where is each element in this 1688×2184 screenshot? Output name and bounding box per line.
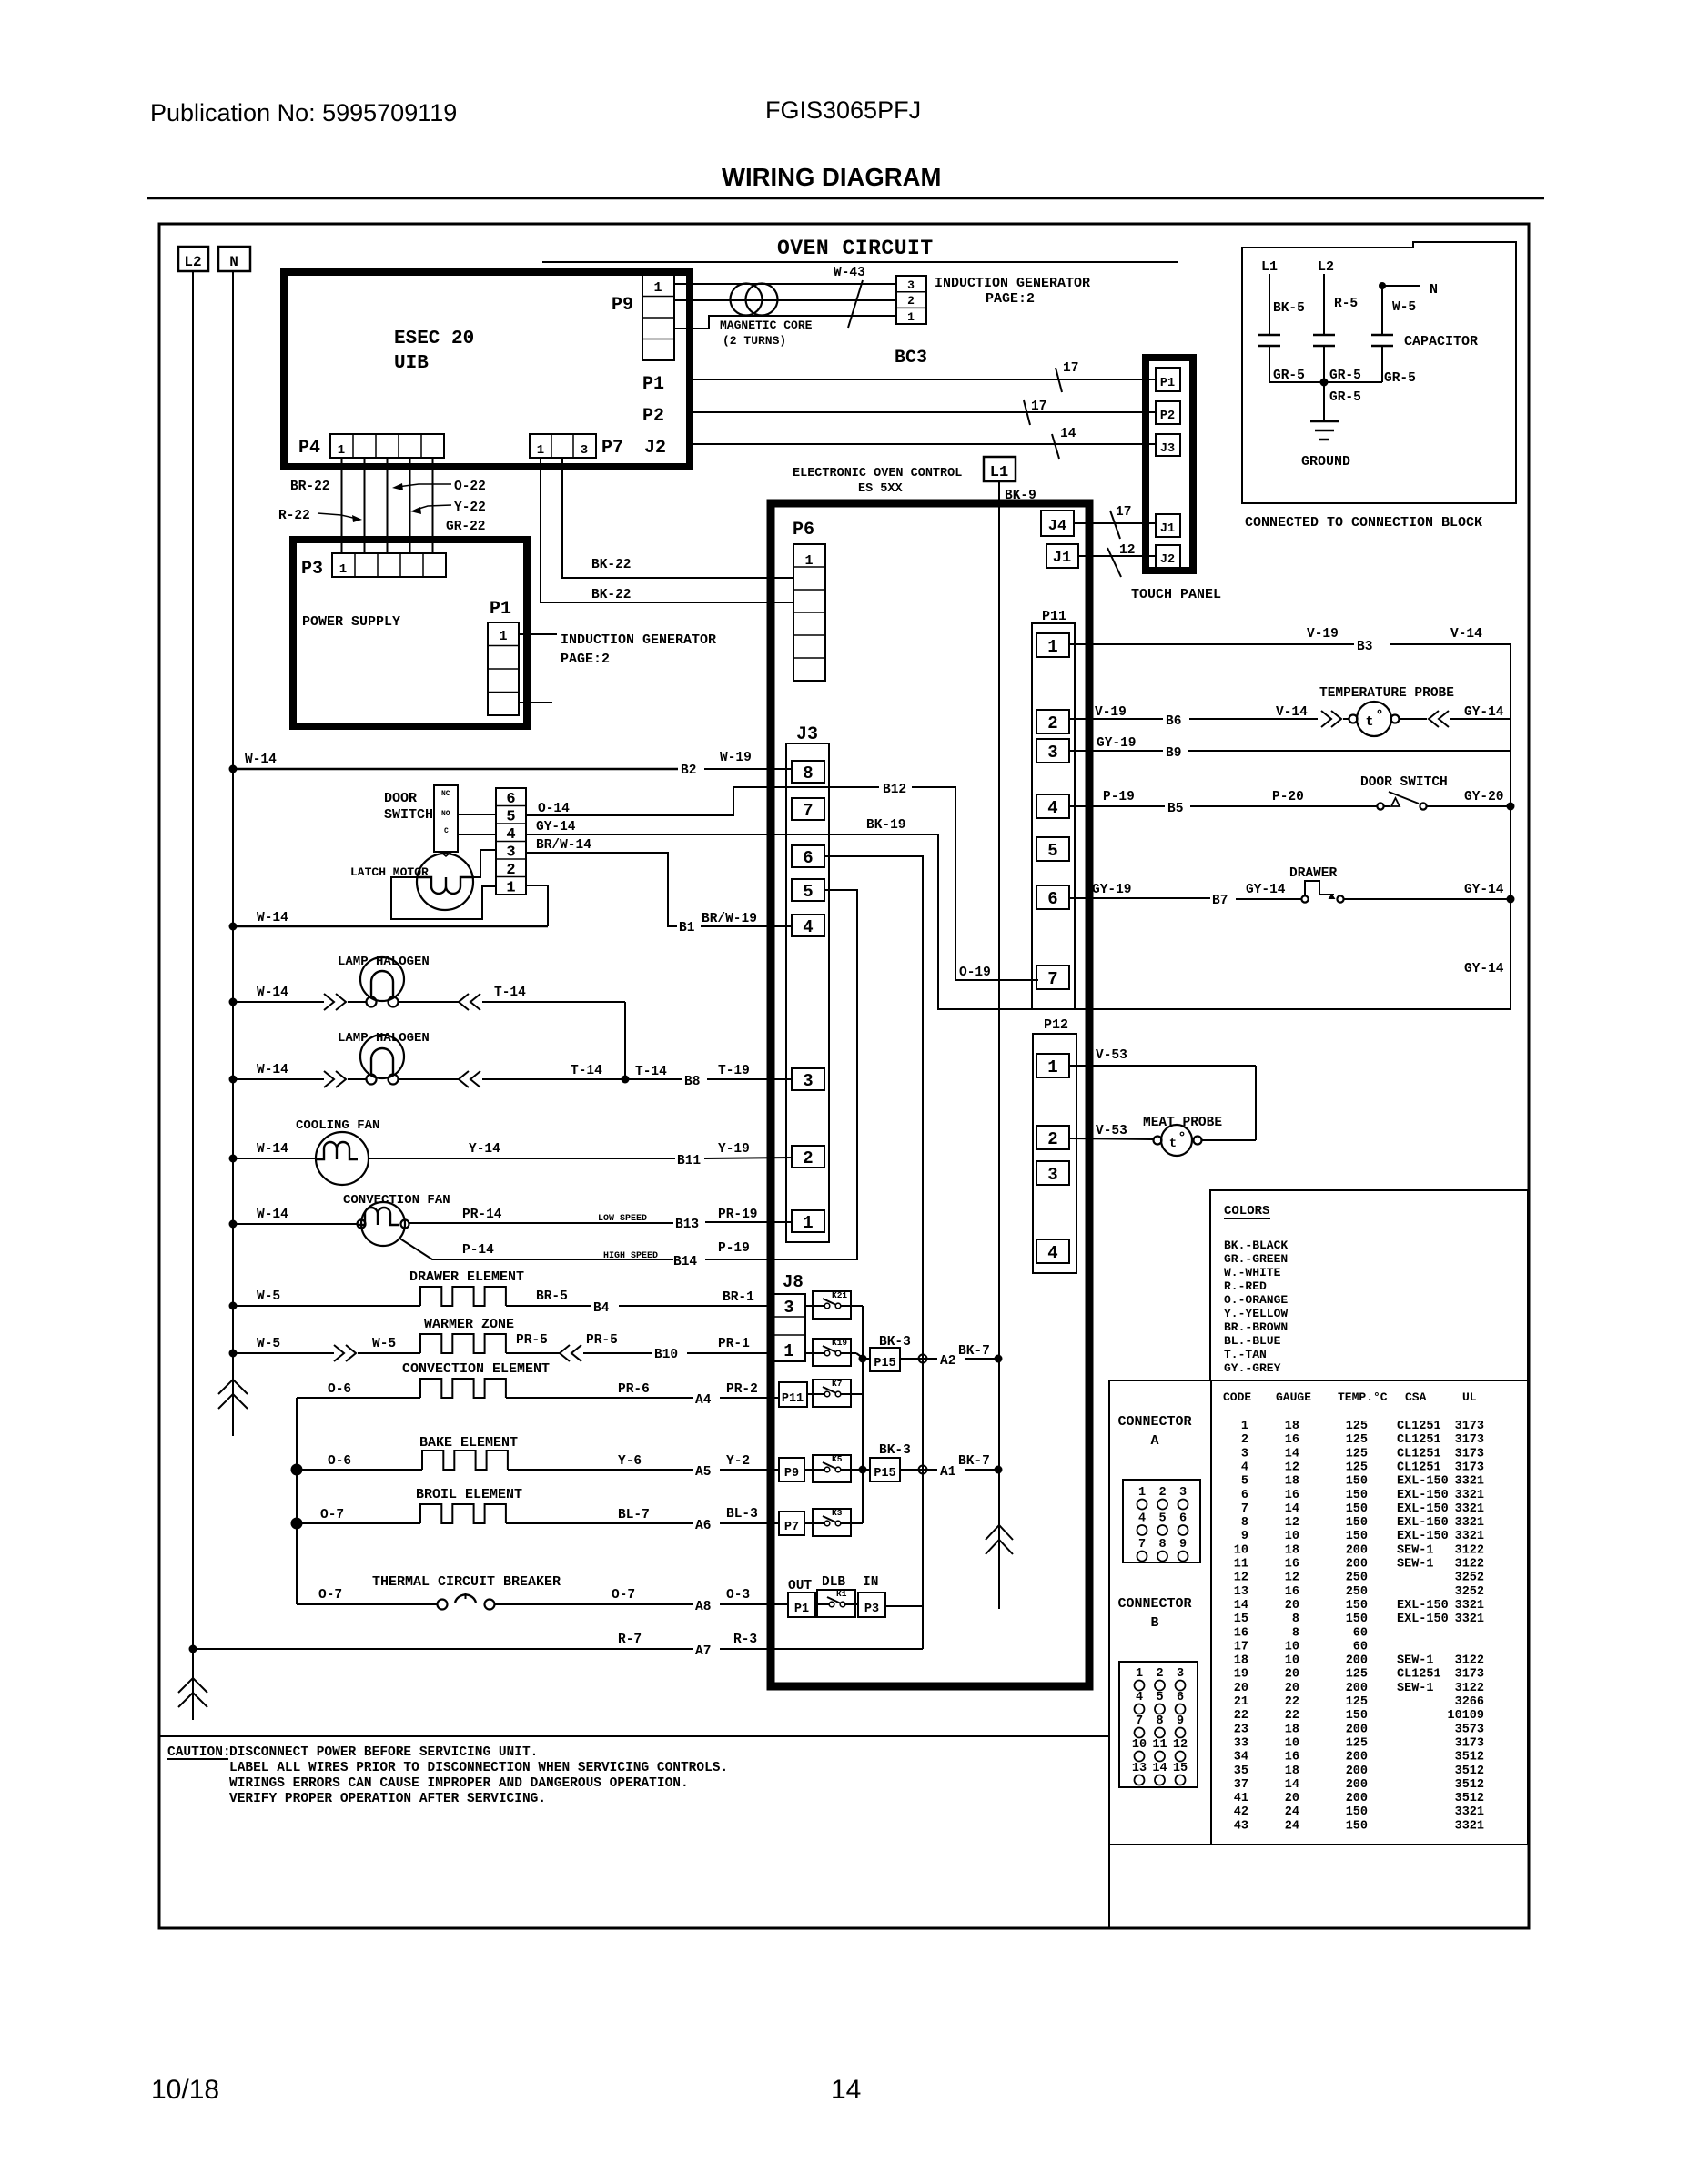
svg-text:BK-22: BK-22 xyxy=(591,588,632,602)
svg-text:16: 16 xyxy=(1285,1489,1299,1502)
module TOUCH PANEL box xyxy=(1146,358,1193,571)
svg-text:Publication No: 5995709119: Publication No: 5995709119 xyxy=(150,99,457,126)
svg-text:BR/W-14: BR/W-14 xyxy=(536,838,591,853)
svg-text:DRAWER: DRAWER xyxy=(1289,866,1338,881)
svg-text:PR-6: PR-6 xyxy=(618,1382,650,1397)
svg-text:V-14: V-14 xyxy=(1450,627,1482,642)
svg-text:A: A xyxy=(1150,1433,1158,1449)
svg-text:22: 22 xyxy=(1285,1709,1299,1723)
svg-text:EXL-150: EXL-150 xyxy=(1397,1489,1449,1502)
wire W-5 to drawer element xyxy=(229,1302,238,1310)
svg-text:LAMP HALOGEN: LAMP HALOGEN xyxy=(338,1031,430,1046)
svg-text:2: 2 xyxy=(1156,1667,1163,1681)
svg-text:B3: B3 xyxy=(1357,640,1372,654)
svg-text:2: 2 xyxy=(1047,1129,1057,1149)
capacitor C-N xyxy=(1381,286,1383,335)
svg-text:V-19: V-19 xyxy=(1095,705,1127,720)
svg-text:GR-5: GR-5 xyxy=(1329,390,1361,405)
wire T-14 upper lamp to junction xyxy=(398,1001,459,1003)
svg-text:20: 20 xyxy=(1285,1668,1299,1682)
node N of capacitor block xyxy=(1379,282,1386,289)
svg-text:BK.-BLACK: BK.-BLACK xyxy=(1224,1239,1288,1252)
svg-text:GY-19: GY-19 xyxy=(1092,883,1132,897)
svg-text:W-5: W-5 xyxy=(257,1337,280,1351)
svg-text:P2: P2 xyxy=(1160,409,1175,423)
svg-text:16: 16 xyxy=(1285,1585,1299,1599)
svg-text:125: 125 xyxy=(1346,1433,1368,1447)
svg-text:3: 3 xyxy=(1177,1667,1184,1681)
svg-text:2: 2 xyxy=(1158,1486,1166,1500)
svg-text:UIB: UIB xyxy=(394,353,429,374)
svg-text:16: 16 xyxy=(1234,1626,1248,1640)
svg-text:Y.-YELLOW: Y.-YELLOW xyxy=(1224,1307,1288,1320)
svg-text:W.-WHITE: W.-WHITE xyxy=(1224,1266,1281,1279)
svg-text:15: 15 xyxy=(1173,1762,1188,1775)
svg-text:200: 200 xyxy=(1346,1778,1368,1792)
svg-text:BC3: BC3 xyxy=(895,348,927,369)
svg-text:5: 5 xyxy=(1158,1512,1166,1526)
svg-text:K7: K7 xyxy=(832,1379,843,1389)
svg-text:1: 1 xyxy=(783,1341,793,1361)
svg-text:GR.-GREEN: GR.-GREEN xyxy=(1224,1252,1288,1266)
svg-text:17: 17 xyxy=(1116,505,1131,520)
svg-text:10: 10 xyxy=(1285,1530,1299,1543)
svg-text:W-43: W-43 xyxy=(834,266,865,280)
svg-text:P-20: P-20 xyxy=(1272,790,1304,804)
svg-text:2: 2 xyxy=(506,862,515,879)
wire J4 to touch panel J1 xyxy=(1074,522,1156,524)
svg-text:8: 8 xyxy=(1241,1516,1248,1530)
wire V-53 from P12 pin2 to meat probe xyxy=(1069,1138,1153,1139)
wire latch motor left terminal loop to pin1 xyxy=(391,877,496,919)
svg-text:O-19: O-19 xyxy=(959,966,991,980)
svg-text:125: 125 xyxy=(1346,1447,1368,1461)
svg-text:V-14: V-14 xyxy=(1276,705,1308,720)
svg-text:T.-TAN: T.-TAN xyxy=(1224,1348,1267,1361)
svg-text:BR-22: BR-22 xyxy=(290,480,330,494)
svg-text:SEW-1: SEW-1 xyxy=(1397,1654,1434,1668)
arrow terminator on N bus xyxy=(218,1380,248,1394)
wire T-14 junction vertical xyxy=(624,1002,626,1079)
touch panel pin P1 xyxy=(1156,368,1180,391)
svg-text:BK-3: BK-3 xyxy=(879,1443,911,1458)
svg-text:P7: P7 xyxy=(784,1521,799,1534)
svg-text:16: 16 xyxy=(1285,1751,1299,1764)
svg-text:18: 18 xyxy=(1234,1654,1248,1668)
svg-text:BR-5: BR-5 xyxy=(536,1289,568,1304)
svg-text:125: 125 xyxy=(1346,1668,1368,1682)
svg-text:EXL-150: EXL-150 xyxy=(1397,1516,1449,1530)
svg-text:CL1251: CL1251 xyxy=(1397,1461,1441,1474)
wire K21 output down to P15 node xyxy=(851,1305,863,1307)
svg-text:t: t xyxy=(1365,714,1373,730)
svg-text:EXL-150: EXL-150 xyxy=(1397,1502,1449,1516)
svg-text:B6: B6 xyxy=(1166,714,1181,729)
svg-text:150: 150 xyxy=(1346,1613,1368,1626)
relay input terminal P9 (EOC) xyxy=(779,1458,804,1481)
svg-text:BK-9: BK-9 xyxy=(1005,489,1036,503)
svg-text:14: 14 xyxy=(1285,1778,1299,1792)
svg-text:14: 14 xyxy=(1285,1447,1299,1461)
svg-text:6: 6 xyxy=(1179,1512,1187,1526)
relay terminal P3 (DLB in) xyxy=(858,1592,885,1617)
svg-text:2: 2 xyxy=(803,1148,813,1168)
module ELECTRONIC OVEN CONTROL box xyxy=(771,503,1089,1686)
wire O-6 to bake element xyxy=(291,1464,303,1476)
svg-text:COOLING FAN: COOLING FAN xyxy=(296,1118,379,1133)
svg-text:CL1251: CL1251 xyxy=(1397,1433,1441,1447)
svg-text:17: 17 xyxy=(1234,1640,1248,1653)
svg-text:14: 14 xyxy=(1060,427,1076,441)
svg-text:5: 5 xyxy=(506,809,515,826)
wire P1 pin4 stub xyxy=(519,702,552,703)
svg-text:SEW-1: SEW-1 xyxy=(1397,1558,1434,1572)
svg-text:13: 13 xyxy=(1234,1585,1248,1599)
svg-text:3: 3 xyxy=(783,1298,793,1318)
wire latch motor right terminal to pin3 xyxy=(474,850,496,877)
svg-text:HIGH SPEED: HIGH SPEED xyxy=(603,1251,658,1261)
arrow terminator on L2 bus xyxy=(178,1678,207,1693)
wire O-7 breaker to DLB P1 (A8 / O-3) xyxy=(495,1603,693,1605)
svg-text:150: 150 xyxy=(1346,1516,1368,1530)
svg-text:K3: K3 xyxy=(832,1508,843,1518)
svg-text:4: 4 xyxy=(506,826,515,844)
svg-text:3321: 3321 xyxy=(1455,1475,1484,1489)
svg-text:23: 23 xyxy=(1234,1723,1248,1736)
svg-text:W-14: W-14 xyxy=(245,753,277,767)
svg-text:P15: P15 xyxy=(874,1357,895,1370)
svg-text:BL-3: BL-3 xyxy=(726,1507,758,1522)
svg-text:3: 3 xyxy=(803,1071,813,1091)
gauge marker 17 on J4 wire xyxy=(1110,511,1120,539)
relay K19 xyxy=(813,1339,851,1366)
svg-text:60: 60 xyxy=(1353,1640,1368,1653)
svg-text:4: 4 xyxy=(1136,1691,1143,1704)
svg-text:BL-7: BL-7 xyxy=(618,1508,650,1522)
svg-text:12: 12 xyxy=(1285,1572,1299,1585)
wire BK-3/BK-7 A2 row to L1 bus xyxy=(900,1358,937,1360)
svg-text:O.-ORANGE: O.-ORANGE xyxy=(1224,1293,1288,1307)
svg-text:W-14: W-14 xyxy=(257,1063,288,1077)
svg-text:K5: K5 xyxy=(832,1454,843,1464)
svg-text:WIRINGS ERRORS CAN CAUSE IMPRO: WIRINGS ERRORS CAN CAUSE IMPROPER AND DA… xyxy=(229,1776,689,1791)
wire P9 pin3 to induction generator pin1 xyxy=(674,316,896,329)
svg-text:12: 12 xyxy=(1173,1738,1188,1752)
svg-text:33: 33 xyxy=(1234,1736,1248,1750)
svg-text:P4: P4 xyxy=(298,438,320,459)
svg-text:J4: J4 xyxy=(1048,518,1066,535)
svg-text:2: 2 xyxy=(1241,1433,1248,1447)
svg-text:Y-22: Y-22 xyxy=(454,500,486,515)
svg-text:3173: 3173 xyxy=(1455,1736,1484,1750)
svg-text:B1: B1 xyxy=(679,921,695,935)
svg-text:10: 10 xyxy=(1285,1736,1299,1750)
svg-text:GY-14: GY-14 xyxy=(1464,962,1504,976)
svg-text:CL1251: CL1251 xyxy=(1397,1420,1441,1433)
svg-text:3321: 3321 xyxy=(1455,1599,1484,1613)
connector door-switch/latch 6-pin xyxy=(496,788,526,895)
svg-text:12: 12 xyxy=(1285,1461,1299,1474)
wire GR-5 bus to ground xyxy=(1269,381,1382,383)
wire BR-5 drawer element to J8 pin3 (B4 / BR-1) xyxy=(506,1305,591,1307)
svg-text:A2: A2 xyxy=(940,1354,955,1369)
svg-text:P1: P1 xyxy=(1160,377,1175,390)
svg-text:3321: 3321 xyxy=(1455,1502,1484,1516)
svg-text:B: B xyxy=(1150,1615,1158,1631)
svg-text:200: 200 xyxy=(1346,1751,1368,1764)
svg-text:GR-5: GR-5 xyxy=(1384,371,1416,386)
wire W-14 from N bus to J3 pin8 (B2 / W-19) xyxy=(229,765,238,773)
svg-text:B4: B4 xyxy=(593,1301,610,1316)
connector induction generator 3-pin xyxy=(896,276,926,324)
relay K1 (DLB) xyxy=(817,1590,855,1617)
svg-text:J1: J1 xyxy=(1160,522,1175,536)
svg-text:P-19: P-19 xyxy=(1103,790,1135,804)
wire K5 output to relay bus junction xyxy=(851,1469,863,1471)
svg-text:R.-RED: R.-RED xyxy=(1224,1279,1267,1293)
svg-text:4: 4 xyxy=(1138,1512,1146,1526)
svg-text:P1: P1 xyxy=(794,1603,809,1616)
svg-text:BK-7: BK-7 xyxy=(958,1344,990,1359)
svg-text:COLORS: COLORS xyxy=(1224,1204,1269,1218)
svg-text:B13: B13 xyxy=(675,1218,699,1232)
svg-text:BK-19: BK-19 xyxy=(866,818,906,833)
crossover symbol at A1 row xyxy=(919,1466,927,1474)
svg-text:SEW-1: SEW-1 xyxy=(1397,1543,1434,1557)
wire BK-9 / L1 bus into EOC xyxy=(998,481,1000,1609)
wire W-14 from N bus to latch connector pin1 xyxy=(229,923,238,931)
svg-text:V-19: V-19 xyxy=(1307,627,1339,642)
wire P-14 high speed to J3 pin5 (B14 / P-19) xyxy=(399,1238,673,1259)
wire table / connector chart outer box xyxy=(1109,1380,1528,1845)
svg-text:DRAWER ELEMENT: DRAWER ELEMENT xyxy=(409,1269,524,1285)
svg-text:3122: 3122 xyxy=(1455,1543,1484,1557)
svg-text:LOW SPEED: LOW SPEED xyxy=(598,1214,647,1224)
svg-text:15: 15 xyxy=(1234,1613,1248,1626)
svg-text:R-5: R-5 xyxy=(1334,297,1358,311)
svg-text:A6: A6 xyxy=(695,1519,711,1533)
wire O-6/O-7 bus vertical xyxy=(296,1398,298,1604)
svg-text:14: 14 xyxy=(831,2075,861,2105)
svg-text:Y-6: Y-6 xyxy=(618,1454,642,1469)
svg-text:P11: P11 xyxy=(1042,609,1066,624)
wire P9 pin1 to induction generator pin3 xyxy=(674,283,896,285)
svg-text:200: 200 xyxy=(1346,1654,1368,1668)
wire ESEC P2 to touch panel P2 xyxy=(693,411,1156,413)
svg-text:3173: 3173 xyxy=(1455,1433,1484,1447)
svg-text:7: 7 xyxy=(1047,969,1057,989)
svg-text:(2 TURNS): (2 TURNS) xyxy=(723,334,786,348)
node N input box xyxy=(218,247,250,271)
svg-text:3: 3 xyxy=(506,844,515,862)
svg-text:J3: J3 xyxy=(796,724,818,745)
svg-text:1: 1 xyxy=(339,562,347,577)
wire temperature probe right side to GY-14 bus xyxy=(1400,718,1427,720)
capacitor C-L1 xyxy=(1258,334,1280,337)
svg-text:O-7: O-7 xyxy=(612,1588,635,1603)
svg-text:14: 14 xyxy=(1285,1502,1299,1516)
wire O-14 from pin5 becoming B12 to P11 pin7 (O-19) xyxy=(526,787,879,815)
svg-text:18: 18 xyxy=(1285,1543,1299,1557)
svg-text:42: 42 xyxy=(1234,1805,1248,1819)
svg-text:O-7: O-7 xyxy=(318,1588,342,1603)
svg-text:P9: P9 xyxy=(784,1467,799,1481)
svg-text:A7: A7 xyxy=(695,1644,711,1659)
svg-text:200: 200 xyxy=(1346,1792,1368,1805)
svg-text:W-19: W-19 xyxy=(720,751,752,765)
svg-text:EXL-150: EXL-150 xyxy=(1397,1475,1449,1489)
svg-text:10: 10 xyxy=(1132,1738,1147,1752)
svg-text:3: 3 xyxy=(1047,1165,1057,1185)
svg-text:BR.-BROWN: BR.-BROWN xyxy=(1224,1320,1288,1334)
svg-text:UL: UL xyxy=(1462,1390,1477,1404)
magnetic core (2 turns) symbol xyxy=(731,284,763,316)
svg-text:3266: 3266 xyxy=(1455,1695,1484,1709)
wire W-5 to warmer zone with connector chevrons xyxy=(229,1350,238,1358)
svg-text:150: 150 xyxy=(1346,1475,1368,1489)
svg-text:35: 35 xyxy=(1234,1764,1248,1778)
svg-text:4: 4 xyxy=(1241,1461,1248,1474)
svg-text:T-14: T-14 xyxy=(571,1064,602,1078)
svg-text:EXL-150: EXL-150 xyxy=(1397,1530,1449,1543)
svg-text:GY-14: GY-14 xyxy=(536,820,576,834)
svg-text:GY-19: GY-19 xyxy=(1097,736,1137,751)
relay input terminal P11 (EOC) xyxy=(779,1382,807,1407)
svg-text:W-5: W-5 xyxy=(1392,300,1416,315)
svg-text:J1: J1 xyxy=(1053,550,1071,567)
svg-text:4: 4 xyxy=(1047,798,1057,818)
svg-text:150: 150 xyxy=(1346,1530,1368,1543)
svg-text:CONNECTED TO CONNECTION BLOCK: CONNECTED TO CONNECTION BLOCK xyxy=(1245,515,1482,531)
relay terminal P1 (DLB out) xyxy=(788,1592,815,1617)
svg-text:3512: 3512 xyxy=(1455,1764,1484,1778)
svg-text:20: 20 xyxy=(1234,1682,1248,1695)
svg-text:CAPACITOR: CAPACITOR xyxy=(1404,334,1478,349)
svg-text:250: 250 xyxy=(1346,1572,1368,1585)
svg-text:4: 4 xyxy=(803,917,813,937)
svg-text:P12: P12 xyxy=(1044,1017,1068,1033)
svg-text:K1: K1 xyxy=(836,1589,847,1599)
svg-text:22: 22 xyxy=(1234,1709,1248,1723)
wire relay common bus to J3 pin5 xyxy=(862,1306,864,1523)
svg-text:24: 24 xyxy=(1285,1805,1299,1819)
svg-text:7: 7 xyxy=(1136,1714,1143,1728)
module ESEC 20 UIB board box xyxy=(284,272,690,467)
node L2 input box xyxy=(178,247,208,271)
svg-text:8: 8 xyxy=(803,763,813,784)
svg-text:8: 8 xyxy=(1292,1626,1299,1640)
svg-text:18: 18 xyxy=(1285,1723,1299,1736)
svg-text:MEAT PROBE: MEAT PROBE xyxy=(1143,1116,1222,1130)
svg-text:W-5: W-5 xyxy=(372,1337,396,1351)
svg-text:R-3: R-3 xyxy=(733,1633,757,1647)
svg-text:3: 3 xyxy=(1179,1486,1187,1500)
svg-text:W-14: W-14 xyxy=(257,986,288,1000)
svg-text:J8: J8 xyxy=(783,1272,804,1292)
wire P-19/B5/P-20 from P11 pin4 to door switch xyxy=(1069,805,1165,807)
connector P7 on ESEC xyxy=(530,434,596,458)
svg-text:BROIL ELEMENT: BROIL ELEMENT xyxy=(416,1487,522,1502)
svg-text:PAGE:2: PAGE:2 xyxy=(986,291,1035,307)
svg-text:8: 8 xyxy=(1158,1538,1166,1552)
gauge marker 17 on P1 wire xyxy=(1056,368,1062,392)
wire GR-22 P4 pin5 to P3 pin5 xyxy=(432,458,434,553)
svg-text:9: 9 xyxy=(1179,1538,1187,1552)
svg-text:CAUTION:: CAUTION: xyxy=(167,1745,231,1760)
svg-text:3252: 3252 xyxy=(1455,1585,1484,1599)
wire O-22 P4 pin3 to P3 pin3 xyxy=(387,458,389,553)
connector B pin grid xyxy=(1119,1662,1198,1787)
svg-text:20: 20 xyxy=(1285,1682,1299,1695)
svg-text:14: 14 xyxy=(1234,1599,1248,1613)
svg-text:12: 12 xyxy=(1285,1516,1299,1530)
svg-text:Y-14: Y-14 xyxy=(469,1142,500,1157)
svg-text:B8: B8 xyxy=(684,1075,700,1089)
svg-text:A5: A5 xyxy=(695,1465,711,1480)
svg-text:17: 17 xyxy=(1063,361,1078,376)
svg-text:DOOR SWITCH: DOOR SWITCH xyxy=(1360,775,1448,790)
svg-text:J2: J2 xyxy=(644,438,666,459)
svg-text:11: 11 xyxy=(1234,1558,1248,1572)
svg-text:P9: P9 xyxy=(612,295,633,316)
svg-text:J2: J2 xyxy=(1160,553,1175,567)
wire door switch NO to connector pin5 xyxy=(458,814,496,815)
svg-text:J3: J3 xyxy=(1160,442,1175,456)
svg-text:3512: 3512 xyxy=(1455,1778,1484,1792)
svg-text:B9: B9 xyxy=(1166,746,1181,761)
svg-text:1: 1 xyxy=(803,1213,813,1233)
svg-text:L1: L1 xyxy=(1261,259,1278,275)
gauge marker 12 on J1 wire xyxy=(1107,548,1121,577)
svg-text:5: 5 xyxy=(803,882,813,902)
crossover symbol at A2 row xyxy=(919,1355,927,1363)
wire drawer switch to GY-14 bus xyxy=(1344,898,1511,900)
svg-text:GY.-GREY: GY.-GREY xyxy=(1224,1361,1281,1375)
svg-text:O-14: O-14 xyxy=(538,802,570,816)
svg-text:18: 18 xyxy=(1285,1420,1299,1433)
svg-text:T-19: T-19 xyxy=(718,1064,750,1078)
svg-text:A8: A8 xyxy=(695,1600,711,1614)
svg-text:1: 1 xyxy=(537,443,544,458)
wire meat probe to V-53 loop xyxy=(1202,1139,1256,1141)
svg-text:8: 8 xyxy=(1156,1714,1163,1728)
svg-text:O-6: O-6 xyxy=(328,1382,351,1397)
svg-text:1: 1 xyxy=(1047,637,1057,657)
separator line above caution notes xyxy=(159,1735,1109,1737)
svg-text:K21: K21 xyxy=(832,1290,847,1300)
arrow terminator on L1 bus xyxy=(986,1525,1013,1540)
svg-text:P11: P11 xyxy=(782,1392,804,1406)
svg-text:3321: 3321 xyxy=(1455,1805,1484,1819)
svg-text:GY-14: GY-14 xyxy=(1464,705,1504,720)
svg-text:3512: 3512 xyxy=(1455,1751,1484,1764)
svg-text:R-7: R-7 xyxy=(618,1633,642,1647)
svg-text:GR-5: GR-5 xyxy=(1273,369,1305,383)
wire J8 pin3 to relay K21 xyxy=(805,1305,813,1307)
wire O-7 bus to thermal breaker xyxy=(297,1603,437,1605)
svg-text:CONVECTION ELEMENT: CONVECTION ELEMENT xyxy=(402,1361,550,1377)
svg-text:O-7: O-7 xyxy=(320,1508,344,1522)
svg-text:P-14: P-14 xyxy=(462,1243,494,1258)
svg-text:O-22: O-22 xyxy=(454,480,486,494)
svg-text:CL1251: CL1251 xyxy=(1397,1668,1441,1682)
svg-text:3573: 3573 xyxy=(1455,1723,1484,1736)
svg-text:B2: B2 xyxy=(681,763,696,778)
svg-text:R-22: R-22 xyxy=(278,509,310,523)
svg-text:INDUCTION GENERATOR: INDUCTION GENERATOR xyxy=(935,276,1090,291)
svg-text:Y-19: Y-19 xyxy=(718,1142,750,1157)
svg-text:1: 1 xyxy=(1047,1057,1057,1077)
